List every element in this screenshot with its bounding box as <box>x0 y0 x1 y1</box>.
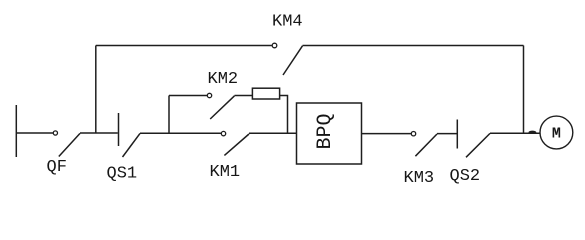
motor M circle <box>540 116 573 149</box>
wire KM4 bypass top right <box>303 45 524 47</box>
wire KM4 bypass top left <box>96 45 272 47</box>
wire QF to QS1 <box>80 132 118 134</box>
wire QS2 to motor node <box>490 132 540 134</box>
svg-text:KM3: KM3 <box>404 169 435 188</box>
contactor KM4 blade <box>283 46 303 75</box>
breaker QF blade <box>59 133 80 156</box>
inverter unit BPQ box <box>297 103 362 164</box>
wire KM3 to QS2 <box>437 133 457 135</box>
contactor KM1 blade <box>224 134 249 155</box>
resistor R <box>252 88 279 99</box>
wire KM4 bypass right drop <box>523 46 525 134</box>
svg-text:KM1: KM1 <box>210 163 241 182</box>
contactor KM4 terminal circle <box>272 43 277 48</box>
disconnector QS1 blade <box>123 133 141 157</box>
svg-text:QS2: QS2 <box>450 167 481 186</box>
KM2 branch riser <box>168 96 170 134</box>
contactor KM3 terminal circle <box>411 132 415 136</box>
svg-text:BPQ: BPQ <box>314 113 337 149</box>
node A riser to KM4 bypass (left) <box>95 46 97 134</box>
svg-text:KM4: KM4 <box>272 13 303 32</box>
disconnector QS2 fixed bar <box>456 120 458 149</box>
wire QS1 to KM1 <box>140 132 221 134</box>
svg-text:KM2: KM2 <box>208 70 239 89</box>
wire KM2 to resistor R <box>235 95 253 97</box>
svg-text:QS1: QS1 <box>107 165 138 184</box>
wire resistor to drop <box>280 96 288 134</box>
svg-text:QF: QF <box>47 158 67 177</box>
node B junction dot <box>529 131 537 134</box>
wire bus to QF terminal <box>16 132 53 134</box>
breaker QF terminal circle <box>53 131 57 135</box>
KM2 branch wire <box>169 95 207 97</box>
wire BPQ to KM3 <box>362 133 412 135</box>
contactor KM3 blade <box>415 134 437 156</box>
contactor KM2 blade <box>210 96 234 119</box>
supply bus bar <box>15 105 17 157</box>
svg-text:M: M <box>552 125 561 142</box>
wire KM1 to BPQ <box>249 132 297 134</box>
disconnector QS1 fixed bar <box>118 113 120 146</box>
disconnector QS2 blade <box>466 133 490 157</box>
contactor KM2 terminal circle <box>207 93 211 97</box>
contactor KM1 terminal circle <box>221 131 225 135</box>
